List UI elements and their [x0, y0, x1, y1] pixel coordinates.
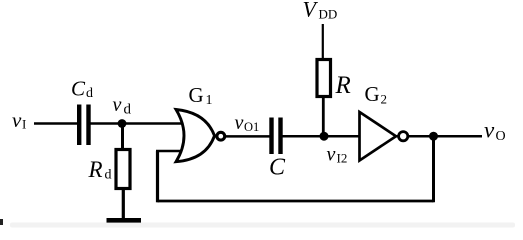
output node	[429, 132, 438, 141]
svg-text:G: G	[189, 83, 204, 107]
svg-text:C: C	[269, 155, 286, 181]
svg-text:O: O	[496, 129, 506, 144]
svg-text:DD: DD	[319, 7, 338, 22]
wire: Cd to G1 top input	[90, 122, 182, 125]
wire: feedback right vertical from output node	[432, 136, 435, 202]
wire: node vd down to Rd	[121, 124, 124, 151]
wire: input vI to Cd	[34, 122, 78, 125]
scan artifact: left edge mark	[0, 219, 3, 225]
node vd	[118, 119, 127, 128]
svg-text:V: V	[303, 0, 319, 22]
svg-text:d: d	[124, 102, 132, 118]
svg-text:R: R	[88, 157, 103, 182]
label Cd	[71, 77, 93, 102]
label G1	[189, 83, 213, 108]
G2 output bubble	[399, 132, 408, 141]
inverter G2	[360, 112, 397, 161]
svg-text:1: 1	[206, 93, 213, 108]
svg-text:v: v	[12, 108, 22, 132]
svg-text:d: d	[86, 86, 93, 101]
wire: Rd to ground	[122, 189, 125, 219]
label vd	[113, 94, 132, 118]
svg-text:G: G	[365, 82, 380, 106]
resistor R	[317, 60, 331, 97]
wire: VDD down to R	[322, 24, 324, 62]
wire: feedback bottom horizontal	[158, 200, 434, 203]
label vO	[484, 118, 506, 145]
svg-text:v: v	[235, 112, 244, 134]
wire: G1 output to C and on to G2 and vO	[225, 135, 270, 138]
svg-text:v: v	[327, 144, 336, 166]
wire: feedback left vertical up to G1 second input	[156, 151, 159, 202]
label vO1	[235, 112, 260, 134]
capacitor Cd	[77, 105, 91, 146]
svg-text:d: d	[105, 168, 112, 183]
capacitor C	[269, 118, 282, 155]
scan artifact: faint bottom streak	[10, 223, 515, 228]
label vI2	[327, 144, 348, 166]
svg-text:I2: I2	[337, 151, 348, 166]
ground	[107, 218, 142, 223]
svg-text:O1: O1	[244, 120, 259, 134]
NOR gate G1	[176, 110, 215, 162]
label Rd	[88, 157, 112, 183]
G1 output bubble	[217, 132, 225, 140]
label G2	[365, 82, 388, 107]
wire: G1 bottom input	[156, 150, 184, 153]
svg-text:R: R	[335, 72, 351, 99]
label VDD	[303, 0, 338, 22]
svg-text:C: C	[71, 77, 86, 101]
svg-text:v: v	[484, 118, 495, 143]
wire: R down to node vI2	[322, 95, 325, 137]
svg-text:v: v	[113, 94, 122, 116]
svg-text:2: 2	[381, 92, 388, 107]
node vI2	[320, 132, 329, 141]
resistor Rd	[116, 150, 130, 189]
svg-text:I: I	[22, 117, 26, 132]
label vI	[12, 108, 26, 132]
